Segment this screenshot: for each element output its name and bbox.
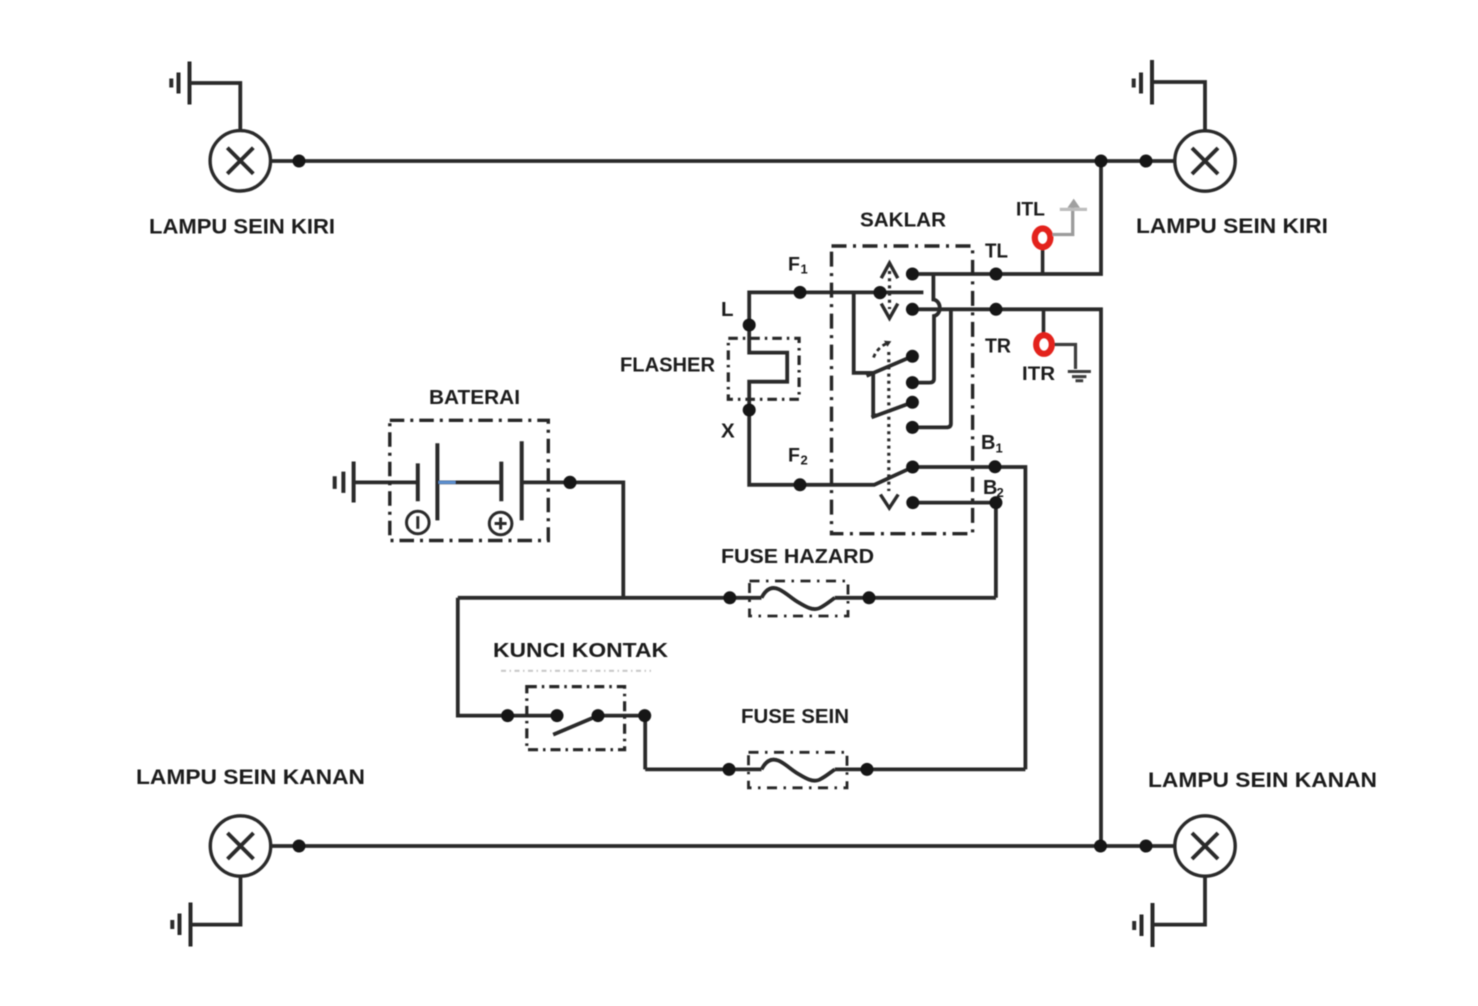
svg-text:LAMPU SEIN KIRI: LAMPU SEIN KIRI bbox=[1136, 215, 1328, 238]
svg-text:LAMPU SEIN KANAN: LAMPU SEIN KANAN bbox=[136, 766, 365, 789]
svg-text:X: X bbox=[721, 420, 735, 443]
svg-text:1: 1 bbox=[801, 262, 808, 277]
svg-text:FUSE HAZARD: FUSE HAZARD bbox=[721, 545, 874, 568]
svg-text:BATERAI: BATERAI bbox=[429, 387, 520, 409]
svg-text:F: F bbox=[788, 254, 800, 276]
svg-text:KUNCI KONTAK: KUNCI KONTAK bbox=[493, 640, 669, 662]
svg-text:LAMPU SEIN KIRI: LAMPU SEIN KIRI bbox=[149, 216, 335, 239]
svg-text:ITR: ITR bbox=[1022, 363, 1055, 385]
svg-text:SAKLAR: SAKLAR bbox=[860, 210, 947, 232]
svg-text:FLASHER: FLASHER bbox=[620, 355, 716, 377]
svg-text:LAMPU SEIN KANAN: LAMPU SEIN KANAN bbox=[1148, 769, 1377, 792]
svg-text:2: 2 bbox=[801, 453, 808, 468]
svg-text:B: B bbox=[981, 432, 995, 454]
svg-text:1: 1 bbox=[996, 441, 1003, 456]
svg-text:L: L bbox=[721, 298, 734, 321]
svg-text:F: F bbox=[788, 445, 800, 467]
svg-text:ITL: ITL bbox=[1016, 199, 1045, 221]
svg-text:B: B bbox=[983, 477, 997, 499]
svg-text:2: 2 bbox=[997, 485, 1004, 500]
svg-text:FUSE SEIN: FUSE SEIN bbox=[741, 705, 849, 728]
svg-text:TR: TR bbox=[985, 336, 1012, 358]
svg-text:TL: TL bbox=[985, 241, 1008, 263]
